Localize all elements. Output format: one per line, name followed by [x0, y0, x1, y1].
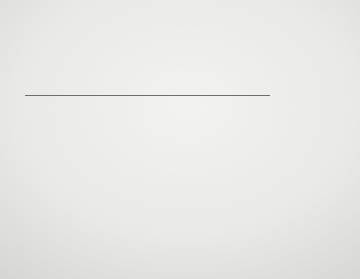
wire: preamp ground rail [25, 95, 270, 97]
